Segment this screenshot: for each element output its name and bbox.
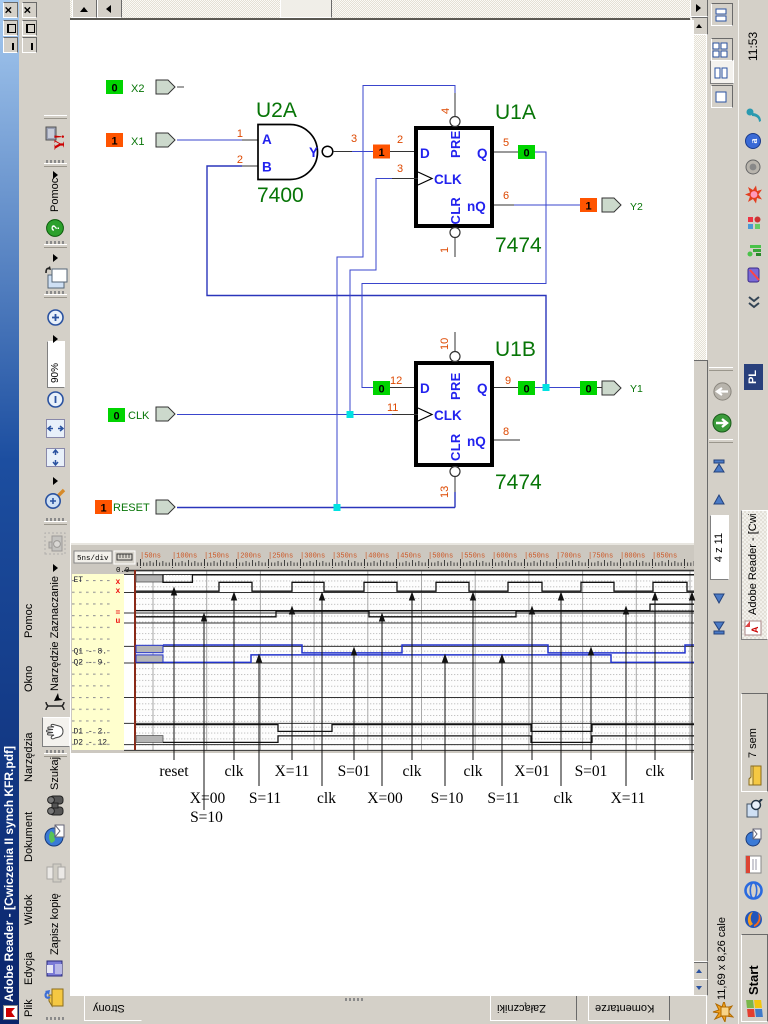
label 7400: [257, 184, 304, 207]
svg-text:PRE: PRE: [448, 372, 463, 400]
svg-text:Y2: Y2: [630, 201, 643, 213]
svg-text:0: 0: [523, 384, 529, 396]
svg-text:|500ns: |500ns: [428, 553, 453, 561]
orange starburst at statusbar left: [712, 1002, 734, 1022]
globe+envelope: [44, 824, 67, 847]
junction node U1B.Q / feedback: [543, 384, 550, 391]
analyzer plot area: [136, 570, 694, 750]
svg-text:|250ns: |250ns: [268, 553, 293, 561]
svg-text:nQ: nQ: [467, 199, 486, 214]
svg-text:X=11: X=11: [611, 790, 646, 807]
svg-text:clk: clk: [646, 763, 665, 780]
pin number 10 (U1B PRE): [439, 338, 451, 350]
svg-text:7474: 7474: [495, 234, 542, 257]
D flip-flop U1A (7474): [416, 117, 492, 238]
svg-text:S=01: S=01: [575, 763, 608, 780]
svg-text:X1: X1: [131, 136, 144, 148]
document pane white: [70, 20, 690, 996]
svg-text:1: 1: [100, 503, 106, 515]
svg-text:|400ns: |400ns: [364, 553, 389, 561]
svg-text:|100ns: |100ns: [172, 553, 197, 561]
svg-text:clk: clk: [554, 790, 573, 807]
pin number 12 (U1B D): [390, 375, 402, 387]
svg-text:8: 8: [503, 426, 509, 438]
svg-text:X2: X2: [131, 83, 144, 95]
analyzer header: time base: [74, 551, 112, 563]
svg-text:1: 1: [111, 136, 117, 148]
svg-text:|200ns: |200ns: [236, 553, 261, 561]
svg-text:x: x: [116, 578, 121, 587]
svg-text:|850ns: |850ns: [652, 553, 677, 561]
quick launch icons: [744, 910, 763, 929]
svg-text:9: 9: [505, 375, 511, 387]
svg-text:D1 - 2.: D1 - 2.: [74, 728, 108, 737]
horizontal scrollbar (original bottom): [690, 18, 706, 996]
analyzer time cursor line: [134, 570, 136, 750]
wire X1 to U2A pin 1: [177, 139, 258, 141]
logic analyzer panel: [71, 543, 694, 753]
help green circle: [46, 219, 64, 237]
svg-text:S=11: S=11: [487, 790, 519, 807]
pin number 13 (U1B CLR): [439, 486, 451, 498]
pin 8 stub wire (unconnected): [494, 439, 520, 441]
annotation labels: [159, 763, 664, 826]
title text: [2, 746, 16, 1002]
waveform trace Q2 (blue): [163, 655, 694, 663]
svg-text:u: u: [116, 617, 121, 626]
waveform trace RESET: [163, 575, 694, 583]
zoom tool magnifier: [43, 487, 67, 511]
select tool I-beam: [44, 692, 66, 714]
pin number 3 (U2A output): [351, 133, 357, 145]
waveform trace D2: [163, 736, 694, 743]
floppy: [46, 959, 64, 977]
zoom out circle: [47, 391, 64, 408]
svg-text:13: 13: [439, 486, 451, 498]
svg-text:3: 3: [351, 133, 357, 145]
svg-text:X=00: X=00: [367, 790, 403, 807]
svg-text:1: 1: [585, 201, 591, 213]
input port X2: [106, 80, 184, 95]
vertical scrollbar (original right): [70, 0, 710, 18]
pin 10 stub wire (unconnected): [454, 332, 456, 352]
svg-text:4: 4: [440, 108, 452, 114]
svg-text:Q1 - 8.: Q1 - 8.: [74, 648, 108, 657]
svg-text:B: B: [262, 160, 272, 175]
svg-text:5: 5: [503, 137, 509, 149]
undefined state blocks: [136, 575, 163, 742]
svg-text:1: 1: [237, 128, 243, 140]
nav tabs on left strip: [84, 995, 142, 1021]
svg-text:CLK: CLK: [128, 410, 150, 422]
svg-text:CLR: CLR: [448, 433, 463, 461]
window buttons app: [3, 37, 18, 53]
svg-text:|800ns: |800ns: [620, 553, 645, 561]
svg-text:|700ns: |700ns: [556, 553, 581, 561]
input port CLK: [108, 407, 175, 423]
clock: [746, 32, 760, 61]
fit width icon: [46, 448, 65, 467]
svg-text:nQ: nQ: [467, 434, 486, 449]
svg-text:reset: reset: [159, 763, 189, 780]
pin number 11 (U1B CLK): [387, 402, 398, 414]
svg-text:clk: clk: [225, 763, 244, 780]
svg-text:12: 12: [390, 375, 402, 387]
svg-text:Y: Y: [309, 145, 318, 160]
waveform trace CLK: [136, 582, 694, 591]
svg-text:X=00: X=00: [190, 790, 226, 807]
label 7474 (U1A): [495, 234, 542, 257]
svg-text:Q2 - 9.: Q2 - 9.: [74, 659, 108, 668]
pin number 6 (U1A nQ): [503, 190, 509, 202]
svg-text:ET: ET: [74, 576, 84, 585]
svg-text:X=11: X=11: [275, 763, 310, 780]
annotation arrows: [171, 587, 695, 811]
svg-text:0: 0: [523, 148, 529, 160]
label U2A: [256, 99, 297, 122]
svg-text:clk: clk: [403, 763, 422, 780]
taskbar start button: [741, 934, 768, 1022]
svg-text:0: 0: [585, 384, 591, 396]
svg-text:D: D: [420, 146, 430, 161]
analyzer row separators: [124, 575, 694, 751]
snapshot camera faded: [44, 532, 66, 555]
svg-text:10: 10: [439, 338, 451, 350]
svg-text:11: 11: [387, 402, 398, 414]
taskbar: [738, 0, 768, 1024]
output port Y1: [602, 381, 643, 395]
svg-text:x: x: [116, 587, 121, 596]
svg-text:S=11: S=11: [249, 790, 281, 807]
toolbar: [40, 0, 71, 1024]
pin number 9 (U1B Q): [505, 375, 511, 387]
tray chevron: [746, 292, 762, 310]
svg-text:A: A: [262, 132, 272, 147]
PL indicator: [744, 364, 763, 390]
svg-text:0: 0: [111, 83, 117, 95]
pages copy icon: [44, 263, 68, 290]
svg-text:|50ns: |50ns: [140, 553, 161, 561]
wire U1B.Q feedback to U2A pin 2 (net B): [207, 166, 546, 384]
D flip-flop U1B (7474): [416, 352, 492, 477]
svg-text:|600ns: |600ns: [492, 553, 517, 561]
svg-text:Q: Q: [477, 146, 488, 161]
svg-text:|650ns: |650ns: [524, 553, 549, 561]
left tab strip: [70, 995, 706, 1024]
pin 4 stub wire: [454, 93, 456, 117]
pin number 2 (U2A input B): [237, 154, 243, 166]
tray icons: [745, 266, 762, 284]
svg-text:RESET: RESET: [113, 502, 150, 514]
svg-text:CLR: CLR: [448, 197, 463, 225]
fit page icon: [46, 419, 65, 438]
adobe reader taskbar button (active): [741, 510, 768, 640]
wire U1B.Q to output Y1 with value 0 boxes: [494, 381, 603, 396]
pin number 1 (U2A input A): [237, 128, 243, 140]
pin number 5 (U1A Q): [503, 137, 509, 149]
output port Y2: [602, 198, 643, 213]
svg-text:U1A: U1A: [495, 101, 536, 124]
menu bar: [19, 0, 40, 1024]
svg-text:0: 0: [378, 384, 384, 396]
input port X1: [106, 133, 175, 148]
analyzer channel-name column: [72, 574, 114, 750]
pin 1 stub wire (unconnected): [454, 238, 456, 258]
waveform trace D1: [136, 725, 694, 732]
zoom in circle: [47, 309, 64, 326]
svg-text:D2 - 12: D2 - 12: [74, 739, 108, 748]
page layout buttons right of status: [711, 85, 733, 108]
svg-text:U1B: U1B: [495, 338, 536, 361]
analyzer time ruler: [136, 559, 694, 568]
svg-text:|150ns: |150ns: [204, 553, 229, 561]
svg-text:S=10: S=10: [190, 809, 223, 826]
junction node RESET branch: [334, 504, 341, 511]
svg-text:S=10: S=10: [431, 790, 464, 807]
title bar: [0, 0, 19, 1024]
wire U1A.Q to U1B.D (net A) with value 0 boxes: [362, 145, 546, 396]
label 7474 (U1B): [495, 471, 542, 494]
junction node CLK branch: [347, 411, 354, 418]
svg-text:Q: Q: [477, 381, 488, 396]
wire U1A.nQ to output Y2 with value 1: [494, 198, 597, 213]
waveform trace Q1 (blue): [163, 645, 694, 653]
svg-text:U2A: U2A: [256, 99, 297, 122]
pane border lines: [70, 18, 706, 20]
svg-text:1: 1: [378, 147, 384, 159]
wire RESET net to U1B.CLR and U1A.PRE: [177, 86, 455, 508]
svg-text:X=01: X=01: [514, 763, 549, 780]
adobe app icon: [3, 1005, 18, 1020]
svg-text:7400: 7400: [257, 184, 304, 207]
svg-text:|350ns: |350ns: [332, 553, 357, 561]
svg-text:|300ns: |300ns: [300, 553, 325, 561]
NAND gate U2A (7400): [258, 125, 333, 180]
waveform trace X2: [136, 604, 694, 610]
open folder icon: [44, 985, 67, 1009]
PDF page background: [70, 20, 694, 996]
svg-text:PRE: PRE: [448, 130, 463, 158]
svg-text:7474: 7474: [495, 471, 542, 494]
wire U2A.Y to U1A.D with value 1: [333, 145, 416, 160]
svg-text:0: 0: [113, 411, 119, 423]
svg-text:1: 1: [439, 247, 451, 253]
pin number 3 (U1A CLK): [397, 163, 403, 175]
svg-text:|550ns: |550ns: [460, 553, 485, 561]
svg-text:2: 2: [237, 154, 243, 166]
svg-text:Y1: Y1: [630, 383, 643, 395]
svg-text:clk: clk: [464, 763, 483, 780]
svg-text:S=01: S=01: [338, 763, 371, 780]
pin 13 stub wire to RESET net: [454, 477, 456, 508]
svg-text:D: D: [420, 381, 430, 396]
printer faded: [45, 862, 66, 884]
label U1A: [495, 101, 536, 124]
wire CLK net: [177, 179, 418, 415]
label U1B: [495, 338, 536, 361]
pin number 8 (U1B nQ): [503, 426, 509, 438]
status bar: [706, 0, 739, 1024]
90% box: [47, 341, 65, 388]
status bar items: [716, 917, 728, 1000]
binoculars: [46, 795, 65, 816]
svg-text:CLK: CLK: [434, 172, 462, 187]
input port RESET: [95, 500, 175, 515]
yahoo red icon: [44, 126, 67, 152]
svg-text:clk: clk: [317, 790, 336, 807]
horizontal scrollbar arrows (orig bottom-left of pane): [691, 978, 708, 996]
svg-text:|450ns: |450ns: [396, 553, 421, 561]
vertical scrollbar pieces (orig right column): [72, 0, 97, 18]
svg-text:3: 3: [397, 163, 403, 175]
hand tool pressed: [42, 717, 70, 747]
svg-text:6: 6: [503, 190, 509, 202]
pin number 4 (U1A PRE): [440, 108, 452, 114]
svg-text:2: 2: [397, 134, 403, 146]
svg-text:|750ns: |750ns: [588, 553, 613, 561]
child window buttons: [22, 37, 37, 53]
7 sem button: [741, 693, 768, 792]
svg-text:5ns/div: 5ns/div: [77, 555, 109, 563]
pin number 1 (U1A CLR): [439, 247, 451, 253]
svg-text:CLK: CLK: [434, 408, 462, 423]
waveform trace X1: [136, 611, 694, 617]
pin number 2 (U1A D): [397, 134, 403, 146]
